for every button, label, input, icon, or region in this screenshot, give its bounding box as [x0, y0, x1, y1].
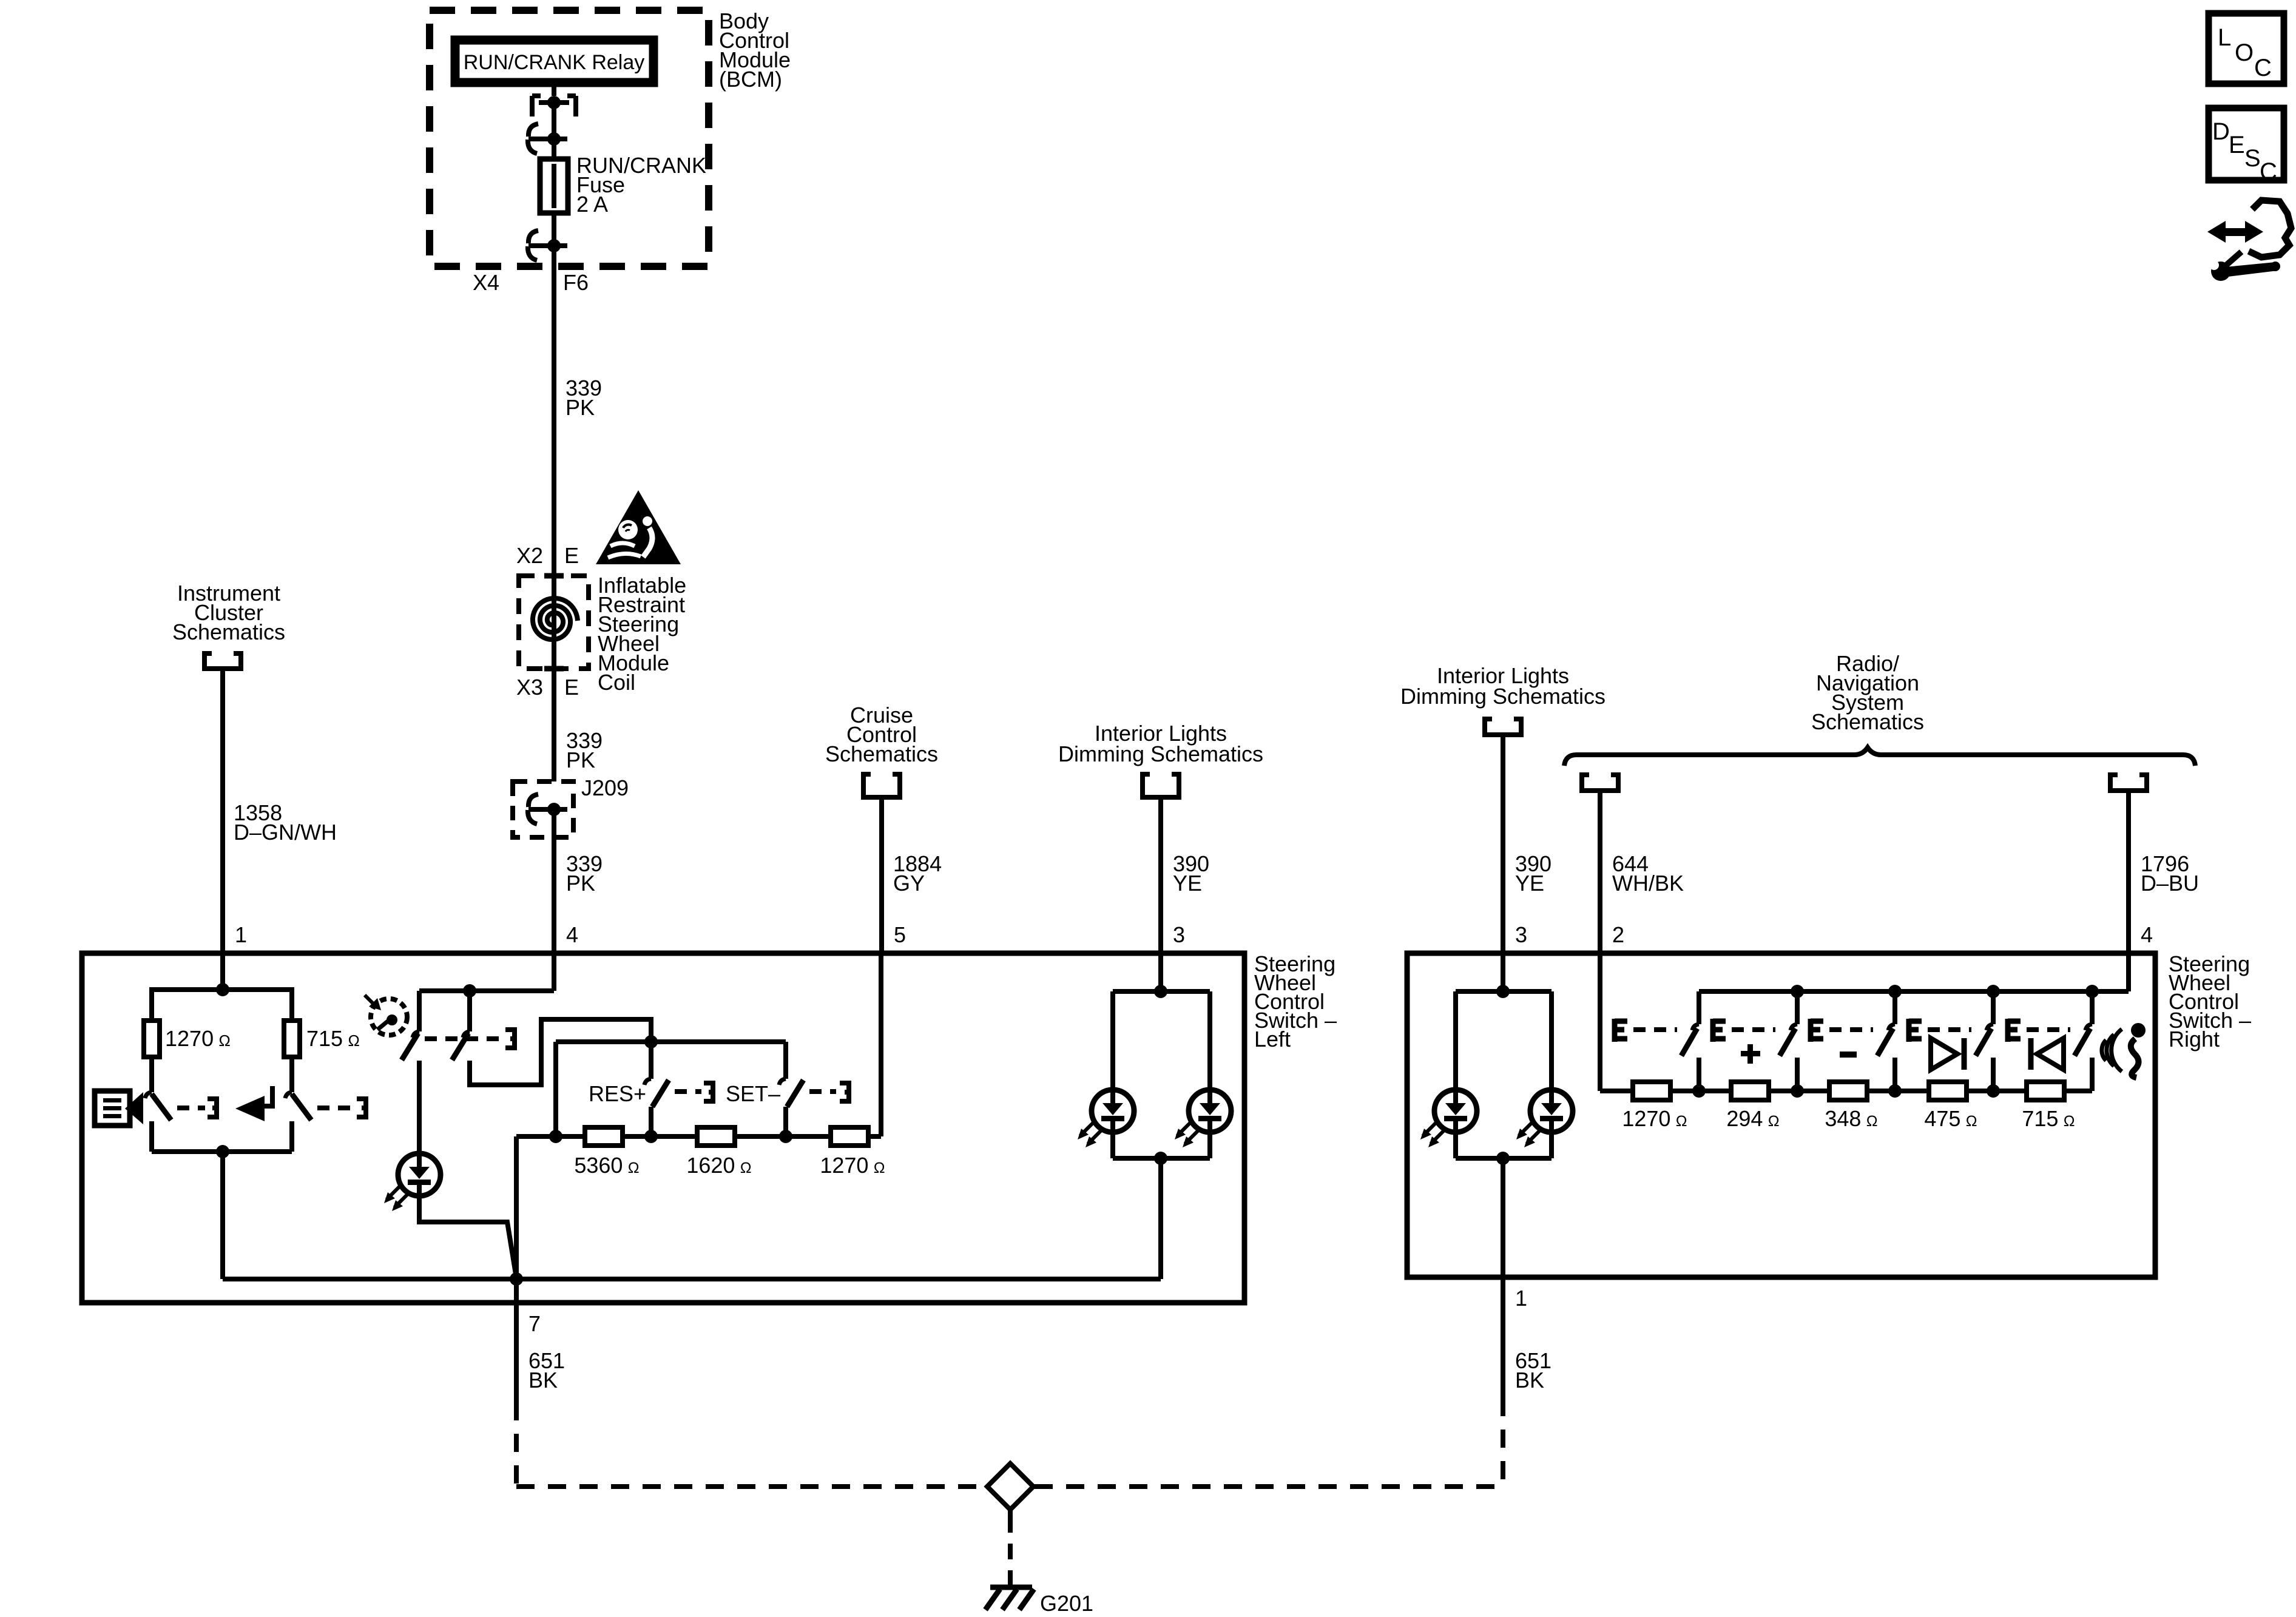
- icon volume + (cell 2): [1741, 1044, 1760, 1064]
- wire cluster to ground bus: [220, 1152, 225, 1279]
- component box Steering Wheel Control Switch - Right: [1407, 953, 2155, 1277]
- resistor label 1270 ohm: [165, 1026, 231, 1051]
- svg-text:1: 1: [1515, 1286, 1527, 1311]
- svg-text:E: E: [564, 675, 579, 700]
- icon box LOC: [2209, 13, 2284, 84]
- svg-text:X3: X3: [516, 675, 543, 700]
- connector female half inside J209: [528, 794, 567, 824]
- label J209: [581, 775, 629, 800]
- node cluster network top rail: [152, 983, 292, 1021]
- LED dimming right (right box): [1516, 991, 1573, 1147]
- wire splice to ground dashed: [1008, 1510, 1013, 1587]
- wire label 1884 GY: [893, 851, 942, 896]
- contact bracket cluster left: [208, 1096, 219, 1119]
- fuse label RUN/CRANK Fuse 2 A: [576, 153, 706, 217]
- svg-text:Coil: Coil: [598, 670, 635, 695]
- switch contact RES+ top: [644, 1042, 651, 1085]
- label RES+: [589, 1081, 646, 1106]
- wire 651 BK dashed bus right: [1035, 1484, 1503, 1489]
- icon voice recognition: [2102, 1023, 2146, 1078]
- mech link E and dashes cell 5: [2008, 1019, 2070, 1042]
- resistor 5360 ohm: [585, 1127, 623, 1146]
- svg-text:E: E: [2229, 132, 2245, 158]
- switch cell 1 contacts and blade: [1681, 991, 1699, 1091]
- resistor 1270 ohm (right): [1633, 1082, 1670, 1100]
- mech dashes cruise pair: [425, 1036, 502, 1041]
- resistor label 294 ohm: [1726, 1106, 1779, 1131]
- resistor label 1620 ohm: [686, 1153, 751, 1178]
- pin number 4 (left switch): [566, 922, 578, 947]
- node LED pair top rail (right box): [1456, 953, 1551, 998]
- wire J209 to switch pin 4: [552, 809, 556, 953]
- wire pin3 into LED pair: [1158, 953, 1163, 991]
- contact bracket cluster right: [357, 1096, 368, 1119]
- svg-text:C: C: [2254, 55, 2272, 81]
- link bracket Cruise Control: [861, 772, 902, 797]
- ground label G201: [1040, 1591, 1093, 1616]
- wire resistor row to pin 5: [879, 953, 883, 1136]
- switch blade (cluster left): [145, 1092, 171, 1120]
- wire cluster left lower contact: [149, 1121, 154, 1152]
- switch contact cruise B top: [463, 991, 470, 1038]
- node switch cells top rail: [1699, 985, 2129, 998]
- wire label 644 WH/BK: [1612, 851, 1684, 896]
- connector female half above fuse: [528, 124, 567, 154]
- fuse F RUN/CRANK Fuse 2 A: [540, 159, 568, 213]
- connector female half below fuse: [528, 231, 567, 260]
- wire fuse to connector: [552, 213, 556, 246]
- wire 651 BK dashed bus left: [516, 1484, 986, 1489]
- mech link E and dashes cell 2: [1713, 1019, 1775, 1042]
- switch blade SET-: [787, 1080, 803, 1107]
- link bracket Radio/Navigation (left): [1579, 772, 1621, 791]
- wire pin 1 exit: [1501, 1158, 1505, 1398]
- svg-text:PK: PK: [566, 395, 595, 420]
- label SET-: [726, 1081, 780, 1106]
- svg-text:1: 1: [235, 922, 247, 947]
- node resistor chain: [1600, 1084, 2092, 1098]
- switch blade cruise B: [452, 1033, 468, 1060]
- switch contact SET- top: [779, 1042, 786, 1085]
- relay label RUN/CRANK Relay: [464, 51, 645, 74]
- wire label 651 BK (left): [528, 1348, 565, 1393]
- splice diamond: [987, 1463, 1033, 1510]
- wire pin 4 into top rail: [2126, 953, 2131, 991]
- label Instrument Cluster Schematics: [172, 581, 285, 644]
- svg-text:RES+: RES+: [589, 1081, 646, 1106]
- svg-text:Right: Right: [2169, 1027, 2220, 1052]
- LED interior lights right: [1175, 991, 1231, 1147]
- svg-text:2: 2: [1612, 922, 1624, 947]
- mech link E and dashes cell 1: [1615, 1019, 1677, 1042]
- svg-text:X4: X4: [473, 270, 499, 295]
- resistor 715 ohm (cluster right branch): [284, 1021, 300, 1057]
- wire cluster right branch: [289, 1057, 294, 1092]
- resistor 294 ohm: [1731, 1082, 1769, 1100]
- resistor 1270 ohm (cluster left branch): [144, 1021, 160, 1057]
- link bracket Radio/Navigation (right): [2108, 772, 2149, 791]
- link bracket Instrument Cluster: [202, 651, 243, 669]
- pin number 1 (right switch): [1515, 1286, 1527, 1311]
- svg-text:3: 3: [1173, 922, 1185, 947]
- svg-text:GY: GY: [893, 871, 925, 896]
- svg-text:J209: J209: [581, 775, 629, 800]
- contact bracket SET-: [840, 1081, 851, 1104]
- svg-text:YE: YE: [1515, 871, 1544, 896]
- wire pin 2 to resistor chain: [1598, 953, 1602, 1091]
- link bracket Interior Lights Dimming (middle): [1140, 772, 1181, 797]
- switch blade RES+: [652, 1080, 669, 1107]
- module label Body Control Module (BCM): [719, 8, 791, 92]
- switch cell 3 contacts and blade: [1877, 991, 1895, 1091]
- icon seek previous (cell 5): [2031, 1038, 2064, 1070]
- resistor 348 ohm: [1829, 1082, 1867, 1100]
- mech link E and dashes cell 4: [1909, 1019, 1971, 1042]
- component label Steering Wheel Control Switch - Right: [2169, 951, 2251, 1052]
- wire 1358 D-GN/WH to pin 1: [220, 669, 225, 953]
- wire pin1 into cluster network: [220, 953, 225, 990]
- svg-text:Schematics: Schematics: [172, 619, 285, 644]
- wire resistor row left drop: [514, 1136, 519, 1279]
- svg-text:(BCM): (BCM): [719, 67, 782, 92]
- component box Steering Wheel Control Switch - Left: [82, 953, 1244, 1303]
- wire label 339 PK (middle): [566, 728, 603, 772]
- wire internal ground bus (left box): [223, 1272, 1161, 1286]
- resistor label 5360 ohm: [574, 1153, 639, 1178]
- svg-text:Dimming Schematics: Dimming Schematics: [1400, 684, 1606, 709]
- wire label 390 YE (right): [1515, 851, 1551, 896]
- resistor label 715 ohm: [306, 1026, 360, 1051]
- svg-text:2 A: 2 A: [576, 192, 608, 217]
- svg-text:PK: PK: [566, 871, 595, 896]
- node cluster network bottom rail: [152, 1121, 292, 1158]
- svg-text:Schematics: Schematics: [825, 741, 938, 766]
- wire rail left riser to resistor row: [553, 1042, 558, 1136]
- svg-text:5: 5: [894, 922, 906, 947]
- node resistor row left: [516, 1130, 881, 1143]
- svg-text:4: 4: [566, 922, 578, 947]
- pin number 2 (right switch): [1612, 922, 1624, 947]
- wire 390 YE to pin 3 right: [1501, 735, 1505, 953]
- svg-text:E: E: [564, 543, 579, 568]
- warning triangle airbag symbol: [596, 490, 681, 564]
- wire label 651 BK (right): [1515, 1348, 1551, 1393]
- wire into fuse: [552, 139, 556, 161]
- splice pack J209 dashed box: [513, 781, 573, 837]
- svg-text:WH/BK: WH/BK: [1612, 871, 1684, 896]
- tick at coil box top: [544, 573, 564, 579]
- svg-text:X2: X2: [516, 543, 543, 568]
- wire RES+ lower contact: [649, 1107, 653, 1136]
- pin number 3 (left switch): [1173, 922, 1185, 947]
- svg-text:BK: BK: [1515, 1368, 1544, 1393]
- mech dashes RES+: [675, 1089, 701, 1094]
- link bracket Interior Lights Dimming (right): [1482, 717, 1524, 735]
- relay K RUN/CRANK Relay box: [455, 40, 653, 83]
- switch cell 5 contacts and blade: [2075, 991, 2092, 1091]
- pin labels X2 E: [516, 543, 579, 568]
- mech dashes cluster left: [177, 1106, 205, 1110]
- resistor 1270 ohm (cruise): [831, 1127, 868, 1146]
- wire through coil: [552, 598, 556, 781]
- wire relay to fuse connector: [552, 103, 556, 139]
- svg-text:S: S: [2244, 145, 2261, 172]
- pin labels X3 E: [516, 675, 579, 700]
- icon hand with double arrow and wrench: [2207, 200, 2291, 281]
- LED interior lights left: [1078, 991, 1134, 1147]
- switch blade cruise A: [402, 1033, 418, 1060]
- svg-text:D: D: [2212, 118, 2230, 145]
- wire 1884 GY to pin 5: [879, 797, 884, 953]
- wire 390 YE to pin 3 left: [1158, 797, 1163, 953]
- wire 339 PK to SWM coil: [552, 376, 556, 598]
- switch cell 4 contacts and blade: [1976, 991, 1993, 1091]
- brace over radio/navigation links: [1564, 748, 2195, 766]
- mech dashes SET-: [809, 1089, 836, 1094]
- node LED pair bottom rail (right box): [1456, 1132, 1551, 1165]
- svg-text:D–GN/WH: D–GN/WH: [234, 820, 337, 845]
- wire label 339 PK (upper): [566, 376, 602, 420]
- label Cruise Control Schematics: [825, 703, 938, 766]
- pin number 5 (left switch): [894, 922, 906, 947]
- LED cruise indicator: [384, 1061, 441, 1211]
- svg-text:RUN/CRANK Relay: RUN/CRANK Relay: [464, 51, 645, 74]
- svg-text:C: C: [2260, 158, 2277, 185]
- icon volume - (cell 3): [1840, 1052, 1857, 1058]
- resistor label 1270 ohm (cruise): [820, 1153, 885, 1178]
- pin number 4 (right switch): [2141, 922, 2153, 947]
- svg-text:BK: BK: [528, 1368, 558, 1393]
- resistor label 475 ohm: [1924, 1106, 1977, 1131]
- icon box DESC: [2209, 108, 2284, 185]
- svg-text:Left: Left: [1254, 1027, 1291, 1052]
- svg-text:L: L: [2218, 24, 2231, 51]
- wire 644 WH/BK to pin 2: [1598, 791, 1602, 953]
- LED dimming left (right box): [1420, 991, 1477, 1147]
- wire LED pair to ground bus: [1158, 1158, 1163, 1279]
- connector male half at relay output: [532, 96, 576, 116]
- icon seek next (cell 4): [1931, 1038, 1964, 1070]
- wire label 1358 D-GN/WH: [234, 800, 337, 845]
- wire cruise LED to bus: [419, 1196, 516, 1278]
- switch cell 2 contacts and blade: [1780, 991, 1797, 1091]
- wire label 339 PK (lower): [566, 851, 603, 896]
- wire cruise B lower contact to RES network: [470, 1019, 651, 1085]
- node LED pair top rail (left box): [1113, 985, 1210, 998]
- svg-text:Dimming Schematics: Dimming Schematics: [1058, 741, 1263, 766]
- clockspring coil symbol (spiral): [533, 598, 578, 640]
- component box Inflatable Restraint Steering Wheel Module Coil, dashed: [519, 576, 589, 669]
- resistor 715 ohm (right): [2027, 1082, 2064, 1100]
- label Interior Lights Dimming Schematics (right): [1400, 663, 1606, 709]
- wire 651 BK dashed (right riser): [1501, 1398, 1505, 1487]
- label Interior Lights Dimming Schematics (middle): [1058, 721, 1263, 766]
- tick at coil box bottom: [544, 666, 564, 672]
- contact bracket RES+: [704, 1081, 715, 1104]
- pin number 1 (left switch): [235, 922, 247, 947]
- resistor label 348 ohm: [1825, 1106, 1877, 1131]
- wire pin 7 exit: [514, 1279, 519, 1402]
- resistor 1620 ohm: [697, 1127, 735, 1146]
- svg-text:O: O: [2235, 39, 2254, 66]
- wire 651 BK dashed (left riser): [514, 1402, 519, 1487]
- pin number 3 (right switch): [1515, 922, 1527, 947]
- label Radio/Navigation System Schematics: [1811, 651, 1924, 734]
- wire cluster right lower contact: [289, 1121, 294, 1152]
- svg-text:SET–: SET–: [726, 1081, 780, 1106]
- mech link E and dashes cell 3: [1811, 1019, 1873, 1042]
- svg-text:YE: YE: [1173, 871, 1202, 896]
- switch blade (cluster right): [285, 1092, 311, 1120]
- svg-text:D–BU: D–BU: [2141, 871, 2199, 896]
- wire label 1796 D-BU: [2141, 851, 2199, 896]
- pin number 7 (left switch): [528, 1311, 541, 1336]
- icon cruise gauge with pointer arrow: [365, 995, 407, 1035]
- wire 1796 D-BU to pin 4: [2126, 791, 2131, 953]
- node LED pair bottom rail (left box): [1113, 1132, 1210, 1165]
- svg-text:7: 7: [528, 1311, 541, 1336]
- svg-text:3: 3: [1515, 922, 1527, 947]
- wire label 390 YE (left): [1173, 851, 1209, 896]
- svg-text:F6: F6: [563, 270, 589, 295]
- icon seek-back arrow: [235, 1086, 272, 1121]
- component label Steering Wheel Control Switch - Left: [1254, 951, 1337, 1052]
- icon horn/voice grille: [95, 1091, 143, 1126]
- resistor 475 ohm: [1929, 1082, 1967, 1100]
- wire pin4 junction row: [419, 953, 554, 998]
- node rail RES/SET: [556, 1035, 786, 1048]
- mech dashes cluster right: [317, 1106, 355, 1110]
- resistor label 715 ohm (right): [2022, 1106, 2075, 1131]
- resistor label 1270 ohm (right): [1622, 1106, 1687, 1131]
- module box Body Control Module (BCM), dashed outline: [430, 10, 709, 266]
- wire BCM exit pin X4/F6: [552, 246, 556, 376]
- coil label Inflatable Restraint Steering Wheel Module Coil: [598, 573, 686, 695]
- pin labels X4 F6: [473, 270, 589, 295]
- svg-text:Schematics: Schematics: [1811, 709, 1924, 734]
- switch contact cruise A top: [413, 991, 419, 1038]
- wire SET- lower contact: [783, 1107, 788, 1136]
- contact bracket cruise: [505, 1027, 517, 1050]
- svg-text:PK: PK: [566, 748, 595, 772]
- wire relay output: [552, 83, 556, 96]
- ground G201 symbol: [985, 1587, 1034, 1610]
- svg-text:G201: G201: [1040, 1591, 1093, 1616]
- svg-text:4: 4: [2141, 922, 2153, 947]
- wire cluster left branch: [149, 1057, 154, 1092]
